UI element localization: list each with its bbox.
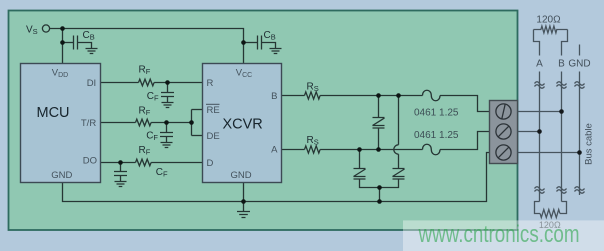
block MCU U1: [21, 64, 101, 183]
wire TVS bottom node: [360, 179, 399, 188]
wire VDD drop: [62, 29, 64, 64]
svg-text:CF: CF: [147, 91, 159, 103]
resistor RF3: [136, 159, 152, 166]
wire terminal1 to B: [518, 111, 562, 113]
ground CF1: [162, 103, 174, 108]
wire terminal2 to A: [518, 131, 540, 133]
capacitor C_B 2 plates: [258, 36, 262, 50]
wire bus GND stub top: [579, 45, 581, 56]
node GND bus junction: [577, 150, 582, 155]
wire bus B upper: [561, 72, 563, 202]
wire top termination bracket: [534, 30, 568, 56]
svg-text:RS: RS: [307, 82, 319, 94]
node CF1 junction: [165, 80, 170, 85]
wire RF2 to branch: [151, 122, 191, 124]
node B line junction 1: [376, 93, 381, 98]
suppressor TVS2: [354, 169, 366, 180]
svg-text:RE: RE: [207, 105, 220, 116]
node A line junction 1: [357, 147, 362, 152]
cable break GND top: [575, 82, 585, 89]
wire DO stub: [101, 162, 136, 164]
svg-text:GND: GND: [568, 59, 590, 70]
svg-text:D: D: [207, 158, 214, 169]
svg-text:CF: CF: [146, 131, 158, 143]
wire B to terminal 1: [440, 96, 490, 112]
terminal screw 2: [496, 124, 511, 139]
svg-text:120Ω: 120Ω: [536, 15, 561, 26]
resistor RS2: [305, 146, 321, 153]
capacitor C_B 1 plates: [74, 36, 78, 50]
svg-text:B: B: [271, 91, 277, 102]
node CF3 junction: [118, 160, 123, 165]
wire A line to fuse: [320, 149, 422, 151]
node XCVR ground junction: [241, 199, 246, 204]
svg-text:A: A: [271, 145, 278, 156]
suppressor TVS3: [393, 169, 405, 180]
wire Vs top rail: [50, 29, 244, 64]
wire CF2 to ground: [166, 137, 168, 143]
svg-text:www.cntronics.com: www.cntronics.com: [418, 221, 580, 248]
wire DI stub: [101, 82, 139, 84]
ground CF3: [115, 182, 127, 187]
node B bus junction: [559, 109, 564, 114]
svg-text:R: R: [207, 78, 214, 89]
wire bus GND lower: [579, 72, 581, 196]
wire CB1 branch: [63, 42, 74, 44]
cable break B bottom: [557, 187, 567, 194]
node Vs terminal circle: [42, 25, 49, 32]
pin overline RE: [206, 103, 220, 105]
svg-text:RF: RF: [139, 145, 151, 157]
svg-text:CB: CB: [264, 30, 276, 42]
svg-text:DI: DI: [87, 78, 97, 89]
wire A stub: [282, 149, 305, 151]
ground CB2: [270, 49, 282, 54]
fuse F2: [423, 144, 441, 155]
ground CF2: [161, 143, 173, 148]
node A bus junction: [537, 129, 542, 134]
wire bottom termination bracket: [535, 202, 567, 214]
cable break GND bottom: [575, 187, 585, 194]
terminal block J1: [490, 101, 518, 164]
wire CB1 to ground: [78, 43, 92, 49]
resistor RF2: [136, 119, 152, 126]
node A line junction 2: [376, 147, 381, 152]
svg-text:CF: CF: [156, 167, 168, 179]
wire TVS2 top: [359, 150, 361, 169]
wire RF3 to D pin: [151, 162, 202, 164]
wire ground bus: [63, 153, 490, 202]
block XCVR U2: [203, 64, 282, 183]
wire CF3 to ground: [120, 176, 122, 182]
svg-text:RS: RS: [307, 135, 319, 147]
resistor RF1: [139, 79, 155, 86]
wire XCVR GND down: [243, 183, 245, 202]
node Vs rail junction: [60, 26, 65, 31]
wire terminal3 to GND: [518, 152, 580, 154]
svg-text:RF: RF: [139, 65, 151, 77]
wire TVS1 top: [378, 96, 380, 118]
svg-text:GND: GND: [51, 170, 72, 181]
node CB2 junction: [241, 40, 246, 45]
wire RE/DE branch vertical: [191, 110, 193, 136]
wire T/R stub: [101, 122, 136, 124]
wire CF3 down: [120, 163, 122, 172]
wire RF1 to R pin: [154, 82, 202, 84]
ground main symbol: [237, 202, 250, 218]
terminal screw 3: [496, 145, 511, 160]
svg-text:DO: DO: [83, 156, 97, 167]
node CF2 junction: [164, 120, 169, 125]
svg-text:Bus cable: Bus cable: [584, 123, 595, 165]
resistor RS1: [305, 92, 321, 99]
wire TVS3 drop lower: [398, 154, 400, 168]
wire B line to fuse: [320, 95, 422, 97]
svg-text:VS: VS: [26, 24, 38, 36]
terminal screw 1: [496, 104, 511, 119]
wire A to terminal 2: [440, 132, 490, 150]
fuse F1: [423, 90, 441, 101]
node TVS bottom junction: [377, 185, 382, 190]
cable break B top: [557, 82, 567, 89]
wire DE stub: [192, 135, 203, 137]
wire bus A upper: [539, 72, 541, 202]
svg-text:GND: GND: [230, 170, 251, 181]
svg-text:0461 1.25: 0461 1.25: [414, 108, 459, 119]
wire TVS3 drop from B upper: [398, 96, 400, 145]
wire TVS3 hop around A line: [394, 145, 399, 154]
svg-text:MCU: MCU: [36, 105, 69, 121]
wire CF2 down: [166, 123, 168, 133]
capacitor C_F 2 plates: [160, 133, 173, 137]
node B line junction 2: [396, 93, 401, 98]
svg-text:CB: CB: [83, 30, 95, 42]
capacitor C_F 1 plates: [161, 93, 174, 97]
wire CB2 to ground: [262, 43, 276, 49]
wire CF1 to ground: [167, 97, 169, 103]
suppressor TVS1: [373, 118, 385, 129]
resistor 120ohm bottom: [540, 210, 560, 218]
wire CF1 down: [167, 83, 169, 93]
node ground bus junction: [377, 199, 382, 204]
svg-text:A: A: [536, 59, 543, 70]
ground CB1: [86, 49, 98, 54]
cable break A bottom: [535, 187, 545, 194]
cable break A top: [535, 82, 545, 89]
svg-text:B: B: [558, 59, 565, 70]
wire RE stub: [192, 109, 203, 111]
node RE/DE junction: [189, 120, 194, 125]
capacitor C_F 3 plates: [114, 172, 127, 176]
svg-text:RF: RF: [139, 106, 151, 118]
svg-text:DE: DE: [207, 131, 220, 142]
svg-text:XCVR: XCVR: [222, 116, 262, 132]
wire TVS node to ground bus: [379, 188, 381, 202]
watermark background: [403, 220, 604, 251]
svg-text:T/R: T/R: [81, 118, 96, 129]
wire B stub: [282, 95, 305, 97]
wire TVS1 bottom: [378, 128, 380, 150]
schematic green panel: [9, 11, 518, 231]
bus junction dots: [537, 109, 582, 155]
wire CB2 branch: [244, 42, 258, 44]
bus cable section wires: [518, 26, 585, 217]
node CB1 junction: [60, 40, 65, 45]
svg-text:0461 1.25: 0461 1.25: [414, 130, 459, 141]
resistor 120ohm top: [534, 26, 568, 33]
